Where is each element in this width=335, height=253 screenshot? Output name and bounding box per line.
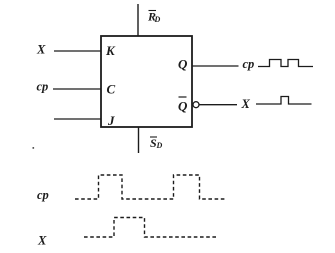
- svg-text:Q: Q: [178, 99, 188, 114]
- svg-text:K: K: [105, 43, 116, 58]
- overbar of Qbar: [179, 96, 187, 98]
- svg-text:D: D: [156, 141, 163, 150]
- wire X to K: [54, 50, 101, 52]
- waveform cp dashed: [75, 175, 226, 199]
- svg-text:cp: cp: [37, 80, 49, 94]
- svg-text:Q: Q: [178, 57, 188, 72]
- bubble on Qbar output: [193, 102, 199, 108]
- stray dot: [33, 147, 35, 149]
- waveform X dashed: [84, 218, 218, 238]
- svg-text:D: D: [154, 15, 161, 24]
- wire SD stub: [138, 127, 140, 153]
- wire Q output: [192, 65, 239, 67]
- flip-flop U1 box: [101, 36, 192, 127]
- wire RD stub: [137, 4, 139, 36]
- svg-text:C: C: [107, 82, 116, 97]
- svg-text:X: X: [37, 234, 47, 248]
- svg-text:cp: cp: [37, 188, 49, 202]
- svg-text:X: X: [36, 43, 46, 57]
- wire Qbar output: [199, 104, 237, 106]
- svg-text:cp: cp: [243, 57, 255, 71]
- wire cp to C: [53, 88, 101, 90]
- svg-text:J: J: [107, 113, 115, 128]
- svg-text:X: X: [241, 97, 251, 111]
- wire J input: [54, 118, 101, 120]
- waveform X mini: [256, 97, 312, 105]
- waveform cp mini: [258, 60, 313, 67]
